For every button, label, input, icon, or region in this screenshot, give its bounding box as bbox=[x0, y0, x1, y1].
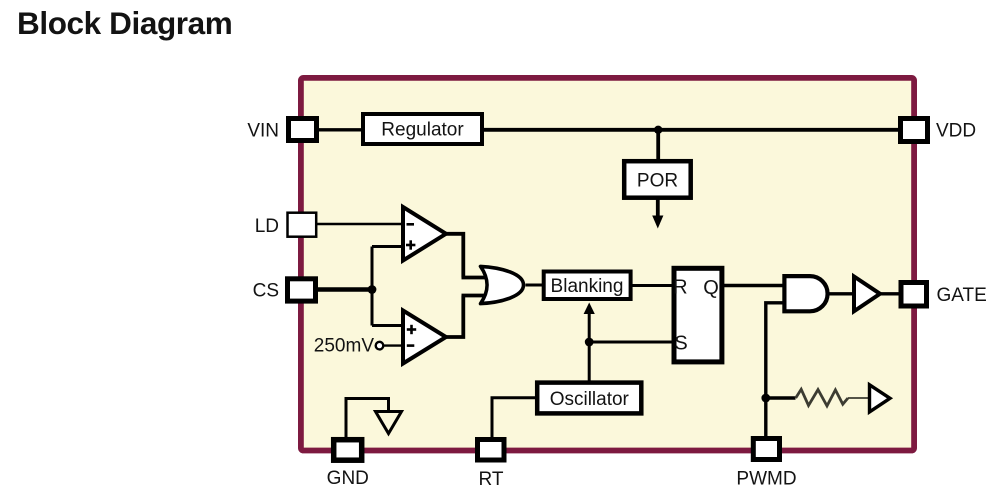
junction on oscillator net bbox=[585, 338, 594, 347]
oscillator block bbox=[537, 383, 641, 414]
junction on VDD net bbox=[654, 126, 662, 134]
svg-text:S: S bbox=[674, 333, 687, 355]
wire flip-flop Q to AND gate bbox=[721, 284, 784, 287]
wire LD to comparator U1 inverting input bbox=[317, 223, 403, 225]
svg-text:GATE: GATE bbox=[937, 285, 987, 306]
wire AND gate to buffer bbox=[828, 292, 854, 295]
wire resistor to buffer bbox=[848, 397, 870, 399]
svg-text:250mV: 250mV bbox=[314, 336, 375, 357]
svg-text:Q: Q bbox=[703, 277, 719, 299]
IC boundary box bbox=[301, 78, 914, 451]
pin LD bbox=[255, 213, 316, 237]
svg-text:VIN: VIN bbox=[247, 120, 279, 141]
wire buffer to GATE pin bbox=[880, 292, 901, 295]
POR output arrow bbox=[652, 200, 663, 229]
OR gate bbox=[481, 266, 524, 303]
pin GATE bbox=[901, 283, 987, 307]
svg-text:Block Diagram: Block Diagram bbox=[17, 5, 232, 41]
svg-text:LD: LD bbox=[255, 216, 279, 237]
wire 250mV to U2 inverting input bbox=[384, 344, 404, 346]
pin RT bbox=[478, 440, 505, 491]
wire junction to resistor bbox=[766, 396, 796, 400]
junction on PWMD net bbox=[761, 394, 770, 403]
buffer (gate driver) bbox=[854, 277, 880, 312]
svg-text:PWMD: PWMD bbox=[736, 469, 796, 490]
svg-text:CS: CS bbox=[253, 281, 279, 302]
svg-text:R: R bbox=[673, 277, 687, 299]
wire GND pin to ground symbol bbox=[346, 399, 389, 441]
ground symbol bbox=[376, 412, 402, 434]
POR block bbox=[624, 161, 691, 198]
wire OR gate to Blanking bbox=[526, 284, 546, 287]
pin PWMD bbox=[736, 439, 796, 490]
pin VIN bbox=[247, 119, 316, 142]
wire VIN to Regulator bbox=[317, 128, 363, 131]
svg-text:POR: POR bbox=[637, 170, 678, 191]
svg-text:Oscillator: Oscillator bbox=[550, 389, 630, 410]
regulator block bbox=[363, 114, 482, 144]
svg-text:VDD: VDD bbox=[936, 121, 976, 142]
wire junction to POR bbox=[656, 130, 660, 162]
wire PWMD pin to AND gate bbox=[766, 303, 785, 436]
blanking block bbox=[544, 272, 631, 300]
wire Blanking to flip-flop R input bbox=[631, 284, 674, 287]
wire CS to junction bbox=[317, 287, 372, 291]
buffer (PWMD driver triangle) bbox=[870, 385, 891, 412]
node 250mV reference bbox=[314, 336, 384, 357]
wire U2 output to OR gate bbox=[444, 296, 463, 338]
junction on CS net bbox=[368, 285, 377, 294]
wire CS branch to U2 + input bbox=[372, 324, 403, 327]
oscillator to blanking arrow wire bbox=[584, 303, 595, 383]
wire CS branch vertical bbox=[371, 247, 374, 326]
wire Oscillator to RT pin bbox=[492, 398, 537, 440]
svg-text:Blanking: Blanking bbox=[551, 276, 624, 297]
wire CS branch to U1 + input bbox=[372, 245, 403, 248]
AND gate bbox=[784, 276, 827, 311]
svg-text:GND: GND bbox=[327, 468, 369, 489]
svg-text:RT: RT bbox=[479, 469, 504, 490]
wire U1 output to OR gate bbox=[444, 234, 463, 278]
comparator U1 bbox=[403, 207, 446, 261]
RS flip-flop bbox=[673, 268, 722, 362]
svg-text:Regulator: Regulator bbox=[381, 120, 464, 141]
pin CS bbox=[253, 279, 316, 302]
comparator U2 bbox=[403, 311, 446, 364]
pin GND bbox=[327, 440, 369, 489]
wire junction to flip-flop S input bbox=[589, 341, 674, 344]
resistor bbox=[796, 389, 848, 406]
pin VDD bbox=[901, 119, 977, 142]
wire Regulator output to VDD (VDD net) bbox=[482, 128, 900, 132]
